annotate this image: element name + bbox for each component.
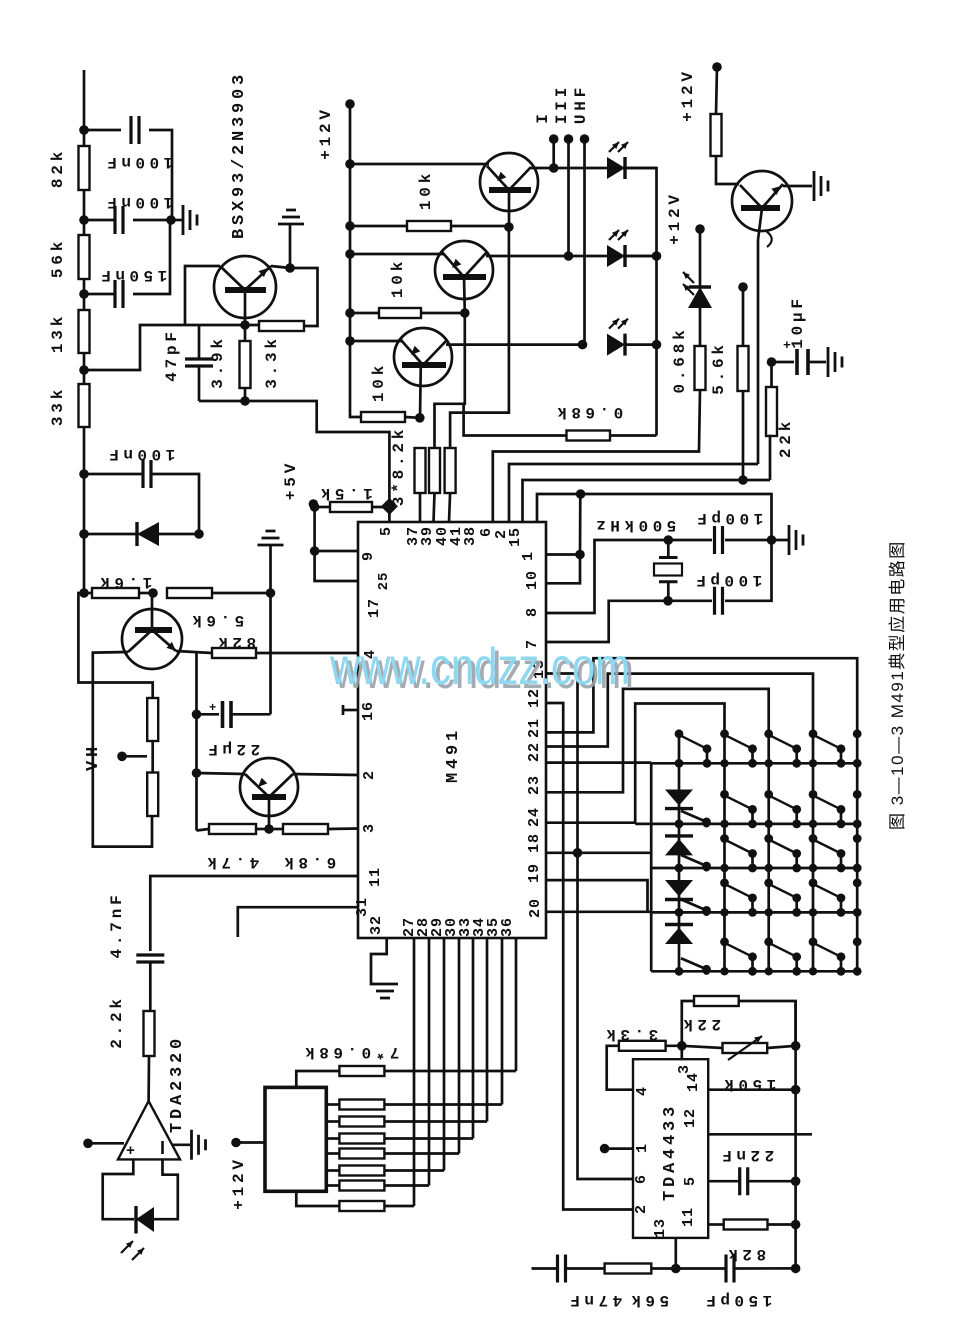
svg-text:21: 21: [526, 718, 543, 738]
wire pin column x502: [501, 938, 504, 1105]
resistor 82k TDA: [708, 1220, 795, 1230]
svg-text:9: 9: [360, 551, 377, 561]
wire T1 base down to 8.2k-3: [450, 227, 509, 448]
svg-text:82k: 82k: [49, 148, 67, 188]
wire bottom node to +5V diamond: [199, 401, 389, 506]
svg-text:38: 38: [462, 526, 479, 546]
node pin5 diamond: [381, 498, 398, 515]
svg-text:III: III: [553, 84, 571, 124]
node matrix crossing: [765, 864, 773, 872]
resistor 82k left: [212, 648, 256, 658]
wire op-amp right stub to LED loop: [154, 1159, 178, 1219]
wire pin27 column: [413, 938, 416, 1206]
wire pin9 stub: [315, 550, 361, 553]
svg-text:22k: 22k: [777, 418, 795, 458]
wire pot middle: [151, 741, 154, 773]
svg-text:www.cndzz.com: www.cndzz.com: [329, 638, 630, 696]
wire matrix row1: [651, 762, 857, 765]
switch row4 col724.5: [720, 879, 729, 888]
svg-text:100nF: 100nF: [103, 193, 174, 211]
node pin13 bottom: [671, 1264, 681, 1274]
node matrix crossing: [720, 908, 728, 916]
transistor Q1: [122, 609, 182, 669]
wire diode column: [678, 734, 681, 971]
svg-text:11: 11: [367, 867, 384, 887]
ground G1 node: [166, 215, 176, 225]
node 150k right: [791, 1041, 801, 1051]
svg-text:25: 25: [376, 572, 392, 591]
TDA input terminal pin1: [600, 1144, 610, 1154]
wire matrix row4: [651, 911, 857, 914]
resistor 3.9k: [240, 325, 251, 401]
svg-text:56k: 56k: [627, 1291, 669, 1309]
wire pin24 to col2 and row2: [546, 704, 725, 972]
wire pin column x444: [443, 938, 446, 1171]
svg-text:+12V: +12V: [230, 1156, 248, 1210]
node matrix crossing: [809, 864, 817, 872]
svg-text:0.68k: 0.68k: [671, 326, 689, 393]
svg-text:13k: 13k: [49, 313, 67, 353]
node col5 band3: [853, 834, 862, 843]
svg-text:3.9k: 3.9k: [209, 335, 227, 389]
node bus row2: [652, 251, 662, 261]
svg-text:UHF: UHF: [572, 84, 590, 124]
node bus row3: [652, 340, 662, 350]
resistor 1.5k: [315, 502, 390, 512]
wire matrix row5: [651, 970, 857, 973]
svg-text:5.6k: 5.6k: [710, 341, 728, 395]
resistor 82k: [79, 130, 90, 220]
svg-text:24: 24: [526, 807, 543, 827]
resistor 33k: [79, 370, 90, 474]
wire T1 collector LED row1: [531, 167, 657, 170]
svg-text:150nF: 150nF: [97, 266, 168, 284]
wire Q2 left to branch: [197, 773, 246, 774]
node mid chain: [79, 215, 89, 225]
svg-text:10k: 10k: [370, 362, 388, 402]
wire TDA pin12 stub: [708, 1133, 812, 1136]
svg-text:100nF: 100nF: [105, 445, 176, 463]
resistor 22k right: [766, 362, 777, 480]
switch diag diode row2: [681, 811, 711, 828]
+12V terminal bank: [231, 1138, 241, 1148]
svg-text:+12V: +12V: [666, 191, 684, 245]
svg-text:4.7k: 4.7k: [203, 853, 259, 871]
resistor 5.6k right: [738, 287, 749, 480]
resistor 8.2k #3: [445, 448, 456, 522]
node wire D crystal drop: [576, 489, 586, 499]
resistor bank 0.68k row2: [326, 1117, 487, 1127]
svg-text:5.6k: 5.6k: [188, 611, 244, 629]
capacitor 100nF top: [84, 116, 172, 213]
wire cap1 right column: [171, 213, 174, 220]
wire T4 base down: [757, 240, 760, 464]
+12V terminal top-right: [712, 62, 722, 72]
wire C pin15 to 22k: [523, 480, 771, 522]
wire LED3 to bus: [625, 343, 657, 346]
node pin14 right: [791, 1085, 801, 1095]
wire VH wiper: [122, 755, 147, 758]
resistor bank bottom 0.68k: [296, 1191, 414, 1211]
svg-text:7*0.68k: 7*0.68k: [301, 1043, 400, 1061]
node 82k right: [791, 1220, 801, 1230]
wire T2 emitter: [350, 253, 444, 256]
diode D3 keypad: [665, 880, 693, 900]
switch row1 col813: [809, 729, 818, 738]
wire pin23 to col3: [546, 689, 769, 971]
capacitor 22nF: [708, 1167, 795, 1195]
svg-text:19: 19: [526, 863, 543, 883]
svg-text:56k: 56k: [49, 238, 67, 278]
svg-text:10k: 10k: [417, 170, 435, 210]
svg-text:+12V: +12V: [317, 106, 335, 160]
svg-text:100pF: 100pF: [693, 509, 764, 527]
svg-text:36: 36: [499, 917, 516, 937]
wire pin4 net: [256, 652, 358, 655]
wire 33k-chain to pot top: [78, 593, 152, 698]
resistor bank 0.68k row6: [326, 1181, 429, 1191]
svg-text:17: 17: [366, 598, 383, 618]
wire emitter to 3.3k right: [290, 268, 318, 326]
wire pin13 down-route: [546, 674, 633, 1180]
switch row3 col813: [809, 834, 818, 843]
wire pin column x459: [458, 938, 461, 1154]
wire pin31 stub: [238, 907, 358, 937]
node bottom right: [791, 1264, 801, 1274]
wire T4 emitter to ground: [783, 185, 812, 188]
terminal III: [564, 134, 574, 144]
svg-text:11: 11: [680, 1207, 697, 1227]
wire T2 base down to 8.2k-2: [435, 313, 465, 448]
resistor 4.7k: [197, 824, 270, 834]
svg-text:M491: M491: [444, 727, 463, 783]
wire TDA pin14: [708, 1088, 795, 1091]
svg-text:10µF: 10µF: [789, 295, 807, 349]
resistor 0.68k horizontal: [464, 404, 657, 441]
node Q2 base: [264, 824, 274, 834]
svg-text:3: 3: [361, 823, 378, 833]
wire BSX93 collector to 13k node: [185, 266, 220, 325]
ground G7: [772, 525, 804, 555]
svg-text:14: 14: [685, 1072, 702, 1092]
node T3 base 10k: [415, 413, 425, 423]
wire T1 emitter: [350, 163, 489, 166]
node pin9 branch: [310, 546, 320, 556]
resistor 0.68k vertical: [695, 308, 706, 450]
node col1 row: [675, 759, 684, 768]
ground G3: [372, 984, 398, 998]
ground G5: [828, 347, 842, 377]
wire pin row1 feed: [546, 761, 651, 764]
node col5 row: [853, 908, 862, 917]
svg-text:2: 2: [633, 1204, 650, 1214]
switch diag diode row3: [681, 855, 711, 872]
svg-text:20: 20: [527, 898, 544, 918]
resistor 10k T3: [361, 412, 420, 422]
svg-text:6.8k: 6.8k: [280, 853, 336, 871]
pin 16 stub: [343, 705, 358, 715]
svg-text:TDA2320: TDA2320: [168, 1035, 187, 1133]
wire chain to 1.6k: [83, 534, 86, 593]
node top of 82k: [79, 125, 89, 135]
wire op-amp right to ground: [173, 1143, 190, 1146]
wire LED2 to bus: [625, 255, 657, 258]
input terminal: [83, 1139, 93, 1149]
wire +5V node: [313, 504, 314, 507]
terminal I: [549, 134, 559, 144]
wire op-amp left stub to LED loop: [103, 1159, 134, 1219]
resistor 5.6k left: [167, 588, 271, 598]
svg-text:VH: VH: [84, 743, 103, 771]
wire pin column x487: [486, 938, 489, 1122]
svg-text:图 3—10—3 M491典型应用电路图: 图 3—10—3 M491典型应用电路图: [888, 540, 907, 830]
node col5 row: [853, 967, 862, 976]
wire pin1 to junction: [546, 553, 580, 556]
svg-text:I: I: [534, 110, 552, 123]
switch row1 col768.7: [764, 729, 773, 738]
switch row3 col768.7: [764, 834, 773, 843]
node Q1 base: [148, 588, 158, 598]
wire emitter branch down: [195, 653, 198, 831]
resistor bank 0.68k row1: [326, 1100, 502, 1110]
wire pin10 route: [546, 555, 580, 584]
svg-text:4.7nF: 4.7nF: [108, 891, 126, 958]
wire TDA pin4 to 3.3k: [607, 1046, 633, 1090]
node bottom 56k: [79, 289, 89, 299]
resistor 2.2k: [144, 1011, 155, 1101]
svg-text:33k: 33k: [49, 386, 67, 426]
wire pin7 to crystal bottom: [546, 601, 668, 642]
switch row5 col768.7: [764, 937, 773, 946]
LED indicator vertical: [683, 229, 712, 308]
node matrix crossing: [720, 864, 728, 872]
svg-text:22: 22: [526, 742, 543, 762]
node diode right: [194, 529, 204, 539]
wire pin21 to col5: [546, 658, 857, 971]
photodiode IR: [121, 1206, 154, 1260]
switch row1 col724.5: [720, 729, 729, 738]
wire LED cathode bus: [625, 168, 657, 436]
node matrix crossing: [809, 820, 817, 828]
svg-text:500kHz: 500kHz: [592, 516, 677, 534]
node pin18 x577: [573, 848, 583, 858]
wire D pin1t to ground column: [537, 494, 772, 540]
wire pin32 to ground: [371, 938, 387, 984]
ground G10: [258, 531, 284, 593]
node 1.6k left: [79, 588, 89, 598]
switch row4 col813: [809, 879, 818, 888]
wire matrix row2: [635, 823, 857, 826]
potentiometer VH lower: [147, 773, 158, 817]
switch row1 col679: [675, 729, 684, 738]
wire A pin6 to 0.68k vertical: [493, 450, 699, 522]
node col5 row: [853, 759, 862, 768]
svg-text:100pF: 100pF: [692, 571, 763, 589]
wire pin5 stub: [388, 506, 391, 522]
switch row5 col724.5: [720, 937, 729, 946]
node 5.6k right: [266, 588, 276, 598]
capacitor 22uF electrolytic: [197, 701, 271, 728]
svg-text:+12V: +12V: [679, 68, 697, 122]
LED III: [607, 245, 625, 267]
svg-text:2.2k: 2.2k: [108, 995, 126, 1049]
+12V terminal LED branch: [695, 224, 705, 234]
switch diag diode row5: [681, 958, 711, 975]
node col5 band2: [853, 790, 862, 799]
wire matrix row3: [651, 867, 857, 870]
svg-text:3*8.2k: 3*8.2k: [390, 426, 408, 506]
capacitor 100pF top: [668, 526, 771, 554]
resistor 10k T2: [350, 308, 465, 318]
node col1 row: [675, 820, 684, 829]
node matrix crossing: [765, 908, 773, 916]
svg-text:TDA4433: TDA4433: [661, 1103, 680, 1201]
diode D1 keypad: [665, 790, 693, 809]
transistor T1: [480, 153, 538, 211]
wire +12V rail: [350, 104, 361, 417]
svg-text:23: 23: [526, 775, 543, 795]
wire pin8 to crystal top: [546, 540, 668, 613]
svg-text:16: 16: [360, 701, 377, 721]
node UHF on row3: [578, 340, 588, 350]
transistor T3: [394, 328, 452, 386]
node 13k/33k: [79, 365, 89, 375]
potentiometer 150k: [682, 1036, 796, 1060]
node 10uF: [767, 357, 777, 367]
node col5 row: [853, 820, 862, 829]
svg-text:+5V: +5V: [282, 460, 300, 500]
resistor 13k: [79, 294, 90, 370]
node 22uF left: [192, 710, 202, 720]
terminal UHF: [580, 134, 590, 144]
svg-text:5: 5: [682, 1176, 699, 1186]
IC M491 body: [358, 522, 546, 938]
node 22nF right: [791, 1176, 801, 1186]
wire chain down: [83, 474, 86, 534]
resistor 1.6k: [84, 588, 153, 598]
transistor T4: [732, 171, 792, 231]
crystal 500kHz: [654, 540, 682, 601]
wire terminal I: [552, 139, 555, 168]
capacitor 150pF: [676, 1255, 796, 1283]
svg-text:3.3k: 3.3k: [263, 335, 281, 389]
svg-text:12: 12: [682, 1108, 699, 1128]
svg-text:1: 1: [634, 1143, 651, 1153]
svg-text:1.5k: 1.5k: [316, 484, 372, 502]
capacitor 4.7nF: [136, 955, 164, 1011]
node matrix crossing: [720, 820, 728, 828]
diode D4 keypad: [665, 925, 693, 945]
switch row2 col724.5: [720, 790, 729, 799]
transistor T2: [435, 241, 493, 299]
switch row2 col768.7: [764, 790, 773, 799]
node crystal top: [664, 535, 674, 545]
node col1 row: [675, 908, 684, 917]
node III on row2: [564, 251, 574, 261]
wire +5V to pins 9 and 25: [315, 507, 361, 581]
node pins 1/10 junction: [575, 550, 585, 560]
resistor 3.3k: [259, 321, 304, 331]
IC TDA4433 body: [633, 1059, 708, 1238]
+5V terminal: [309, 499, 319, 509]
right bus vertical: [794, 1001, 797, 1268]
node 100nF left: [79, 469, 89, 479]
resistor 56k: [79, 220, 90, 294]
node matrix crossing: [809, 908, 817, 916]
node col1 row: [675, 967, 684, 976]
svg-text:0.68k: 0.68k: [553, 403, 624, 421]
switch row5 col813: [809, 937, 818, 946]
wire 5.6k-right vertical: [269, 593, 272, 714]
resistor 8.2k #2: [429, 448, 440, 522]
node ground crystal: [767, 535, 777, 545]
switch diag diode row4: [681, 899, 711, 916]
potentiometer VH upper: [147, 698, 158, 741]
VH wiper terminal: [117, 752, 127, 762]
node col5 band1: [853, 729, 862, 738]
wire pin36 column: [515, 938, 518, 1071]
wire Q2 right to pin2: [293, 774, 358, 775]
ground G6: [814, 171, 828, 201]
svg-text:150pF: 150pF: [702, 1291, 773, 1309]
resistor 56k: [605, 1264, 676, 1274]
svg-text:32: 32: [368, 915, 385, 935]
wire T3 emitter: [350, 340, 403, 343]
svg-text:10: 10: [524, 570, 541, 590]
node TDA pin3: [677, 1041, 687, 1051]
resistor 10k T1: [350, 221, 509, 231]
wire pin22 to col4: [546, 674, 813, 972]
svg-text:22nF: 22nF: [718, 1146, 774, 1164]
node BSX93 emitter: [285, 263, 295, 273]
svg-text:47nF: 47nF: [566, 1291, 622, 1309]
capacitor 47pF: [185, 325, 213, 401]
wire matrix left column: [650, 763, 653, 972]
wire input to op-amp: [88, 1142, 124, 1145]
resistor 3.3k TDA: [619, 1041, 682, 1051]
wire terminal UHF: [583, 139, 586, 345]
node rail 10k-1: [345, 221, 355, 231]
svg-text:22µF: 22µF: [204, 740, 260, 758]
svg-text:15: 15: [507, 527, 524, 547]
node rail 10k-2: [345, 308, 355, 318]
wire pin11 route: [150, 876, 358, 951]
transistor Q2: [240, 758, 298, 816]
node diode left: [79, 529, 89, 539]
diode D-left (points left): [84, 522, 199, 546]
capacitor 100pF bottom: [668, 540, 772, 615]
switch row3 col724.5: [720, 834, 729, 843]
ground G1: [171, 205, 197, 235]
resistor bank 0.68k row5: [326, 1166, 444, 1176]
wire +12V to bank: [236, 1141, 265, 1144]
wire Q1 collector to pot bottom: [93, 652, 152, 847]
svg-text:10k: 10k: [389, 258, 407, 298]
node matrix crossing: [720, 967, 728, 975]
node T1 base 10k: [504, 222, 514, 232]
capacitor 100nF left-mid: [84, 460, 199, 534]
wire pin column x473: [472, 938, 475, 1139]
resistor 22k TDA: [682, 996, 796, 1046]
resistor 8.2k #1: [415, 448, 426, 522]
switch row4 col768.7: [764, 879, 773, 888]
resistor bank top 0.68k: [296, 1066, 516, 1087]
node +5V 1.5k: [310, 502, 320, 512]
node BSX93 base: [240, 320, 250, 330]
capacitor 10uF electrolytic: [772, 338, 827, 375]
wire TDA pin13 down: [674, 1238, 677, 1269]
wire Q1 emitter: [176, 651, 212, 653]
